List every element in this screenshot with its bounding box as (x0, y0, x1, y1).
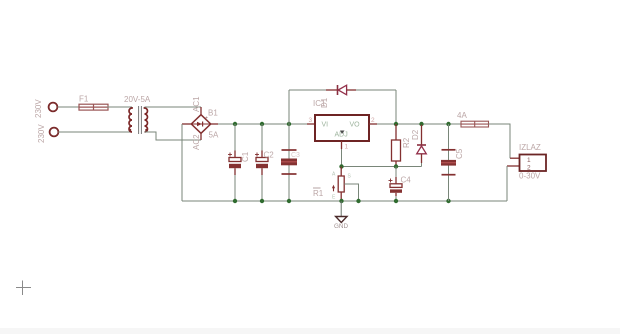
svg-text:VI: VI (322, 122, 329, 129)
wire (356, 89, 396, 91)
node junction (260, 122, 264, 126)
capacitor C4 (389, 167, 412, 202)
transformer TR1 primary winding (129, 107, 132, 132)
svg-text:C2: C2 (264, 151, 275, 160)
wire (145, 132, 202, 140)
wire (182, 200, 507, 202)
wire (288, 90, 290, 201)
diode D2 (411, 125, 426, 167)
wire (377, 123, 461, 125)
svg-text:AC1: AC1 (192, 96, 201, 112)
node junction (339, 164, 343, 168)
connector X1-1 230V (34, 99, 57, 118)
node junction (233, 122, 237, 126)
svg-text:5A: 5A (209, 131, 219, 140)
node junction (287, 122, 291, 126)
svg-text:F1: F1 (79, 95, 89, 104)
svg-text:C4: C4 (401, 176, 412, 185)
wire (489, 124, 511, 158)
svg-text:IZLAZ: IZLAZ (519, 143, 541, 152)
svg-text:ADJ: ADJ (335, 132, 348, 139)
node junction (394, 199, 398, 203)
node junction (419, 122, 423, 126)
wire (341, 141, 343, 149)
capacitor C5 (441, 124, 464, 201)
diode D1 (320, 85, 356, 108)
svg-text:0-30V: 0-30V (519, 172, 541, 181)
svg-text:C1: C1 (241, 151, 250, 162)
ground GND (334, 201, 348, 230)
wire (107, 106, 132, 108)
svg-text:230V: 230V (34, 99, 43, 118)
svg-text:C5: C5 (455, 148, 464, 159)
wire (289, 89, 326, 91)
wire (507, 165, 520, 167)
node junction (446, 122, 450, 126)
transformer TR1 core (139, 106, 142, 134)
wire (218, 123, 307, 125)
wire (307, 123, 315, 125)
svg-text:1: 1 (345, 144, 349, 151)
node junction (287, 199, 291, 203)
bottom grey strip (0, 328, 620, 334)
capacitor C1 (228, 124, 250, 201)
svg-text:1: 1 (527, 157, 531, 164)
bridge rectifier B1 (182, 96, 219, 150)
fuse F1 (79, 95, 108, 111)
connector X1-2 230V (37, 124, 58, 143)
connector X2 IZLAZ (519, 143, 546, 181)
wire (506, 166, 508, 201)
wire (369, 123, 377, 125)
svg-text:VO: VO (350, 122, 361, 129)
svg-text:230V: 230V (37, 124, 46, 143)
origin cross (16, 281, 31, 296)
svg-text:3: 3 (309, 117, 313, 124)
node junction (394, 122, 398, 126)
node junction (233, 199, 237, 203)
node junction (260, 199, 264, 203)
wire (145, 106, 202, 108)
capacitor C2 (255, 124, 274, 201)
svg-text:R2: R2 (402, 137, 411, 148)
wire (58, 131, 132, 133)
resistor R2 (392, 124, 412, 167)
wire (58, 106, 80, 108)
svg-text:C3: C3 (291, 152, 300, 159)
fuse F2 4A (457, 111, 489, 127)
node junction (356, 199, 360, 203)
node junction (394, 164, 398, 168)
wire (181, 124, 183, 201)
capacitor C3 (281, 150, 300, 174)
svg-text:2: 2 (527, 165, 531, 172)
svg-text:GND: GND (334, 223, 348, 230)
op-amp regulator IC1 (309, 99, 376, 151)
svg-text:20V-5A: 20V-5A (124, 95, 151, 104)
wire (510, 157, 520, 159)
svg-text:IC1: IC1 (313, 99, 326, 108)
node junction (446, 199, 450, 203)
svg-text:B1: B1 (208, 109, 218, 118)
wire (395, 90, 397, 124)
wire ADJ node (342, 166, 422, 168)
svg-text:AC2: AC2 (192, 134, 201, 150)
wire (341, 149, 343, 167)
potentiometer R1 (313, 167, 359, 202)
transformer TR1 secondary winding (145, 107, 148, 132)
svg-text:2: 2 (371, 117, 375, 124)
svg-text:4A: 4A (457, 111, 467, 120)
svg-text:D2: D2 (411, 129, 420, 140)
svg-text:R1: R1 (313, 189, 324, 198)
node junction (339, 199, 343, 203)
